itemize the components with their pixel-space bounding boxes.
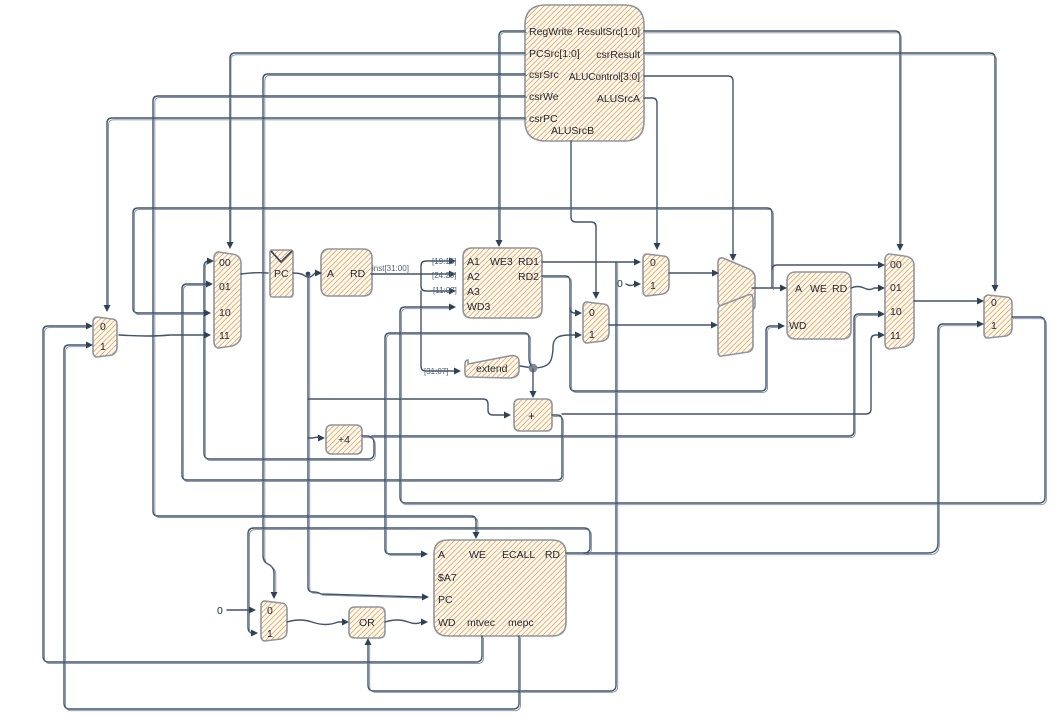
node junction PC xyxy=(306,272,311,277)
wire csr RD to csrResult mux 1 xyxy=(566,324,978,553)
mux M_TRAP (csrPC select, left) xyxy=(93,317,117,357)
svg-text:00: 00 xyxy=(219,257,231,269)
svg-text:0: 0 xyxy=(991,297,997,309)
wire SrcB mux to ALU xyxy=(609,324,712,326)
wire ImmExt to branch adder xyxy=(532,369,534,392)
wire PC to instruction memory xyxy=(293,273,316,277)
svg-text:RD: RD xyxy=(545,549,561,561)
svg-text:RD2: RD2 xyxy=(518,271,539,283)
wire csrResult xyxy=(644,53,995,286)
wire ALUControl[3:0] xyxy=(644,76,733,255)
wire csr RD loop to csrSrc mux 1 xyxy=(248,528,590,633)
wire PCTarget to result mux 11 xyxy=(562,335,879,414)
svg-text:0: 0 xyxy=(650,257,656,269)
mux M_PCSRC (4:1 next-PC mux) xyxy=(214,252,241,348)
wire RD1 branch to OR gate xyxy=(368,262,616,691)
svg-text:0: 0 xyxy=(267,605,273,617)
wire ALUSrcA xyxy=(644,98,657,244)
wire inst[31:00] bus xyxy=(371,273,450,275)
svg-text:WD: WD xyxy=(438,617,456,629)
svg-text:ALUControl[3:0]: ALUControl[3:0] xyxy=(569,72,640,83)
svg-text:10: 10 xyxy=(890,306,902,318)
wire +4 loop to PCSrc mux 00 xyxy=(204,261,374,459)
gate U_OR xyxy=(349,607,385,638)
wire PCSrc mux to PC xyxy=(241,273,268,274)
svg-text:ECALL: ECALL xyxy=(502,549,535,561)
sign-extend unit U_EXT xyxy=(465,356,519,378)
wire RegWrite xyxy=(499,31,525,241)
svg-text:11: 11 xyxy=(219,330,230,342)
svg-text:[19:15]: [19:15] xyxy=(432,257,456,266)
wire ResultSrc[1:0] xyxy=(644,31,900,245)
wire PC to branch adder xyxy=(308,399,505,415)
register PC xyxy=(270,250,293,297)
svg-text:01: 01 xyxy=(219,281,231,293)
instruction memory U_IMEM xyxy=(321,249,372,296)
svg-text:[11:07]: [11:07] xyxy=(433,286,457,295)
svg-text:csrWe: csrWe xyxy=(529,91,559,103)
svg-text:WE: WE xyxy=(469,549,486,561)
mux M_RESULT (ResultSrc 4:1) xyxy=(885,254,914,349)
mux M_CSRRES (csrResult) xyxy=(984,295,1012,338)
wire mtvec to trap mux 0 xyxy=(43,326,482,662)
wire mepc to trap mux 1 xyxy=(64,345,519,709)
svg-text:csrSrc: csrSrc xyxy=(529,69,559,81)
svg-text:00: 00 xyxy=(890,259,902,271)
wire csrWe xyxy=(153,96,525,533)
svg-text:RD1: RD1 xyxy=(518,256,539,268)
wire trap mux to PCSrc mux 11 xyxy=(119,335,205,336)
wire csrSrc xyxy=(263,74,525,593)
svg-text:1: 1 xyxy=(100,341,106,353)
wire RD2 tap to SrcB mux 0 xyxy=(570,308,576,313)
svg-text:01: 01 xyxy=(890,282,902,294)
svg-text:WE3: WE3 xyxy=(490,256,513,268)
wire RD1 to SrcA mux 0 xyxy=(542,261,635,263)
svg-text:[24:20]: [24:20] xyxy=(432,271,456,280)
svg-text:WD: WD xyxy=(789,320,807,332)
wire branch adder out / PCTarget xyxy=(182,284,562,480)
svg-text:extend: extend xyxy=(476,363,508,375)
mux M_SRCB (ALUSrcB) xyxy=(583,302,609,343)
svg-text:1: 1 xyxy=(650,280,656,292)
svg-text:inst[31:00]: inst[31:00] xyxy=(372,264,409,273)
svg-text:WE: WE xyxy=(810,283,827,295)
wire ALUSrcB xyxy=(571,141,596,293)
control unit U_CTRL xyxy=(525,5,644,141)
svg-text:A: A xyxy=(438,549,445,561)
svg-text:PC: PC xyxy=(438,594,453,606)
svg-text:OR: OR xyxy=(359,617,375,629)
svg-text:csrPC: csrPC xyxy=(529,113,558,125)
svg-text:PC: PC xyxy=(274,268,289,280)
svg-text:1: 1 xyxy=(267,628,273,640)
register file U_RF xyxy=(463,248,542,318)
CSR unit U_CSR xyxy=(434,540,566,636)
wire inst[11:07] to A3 xyxy=(421,274,450,291)
wire PC to +4 xyxy=(308,437,319,438)
svg-text:1: 1 xyxy=(991,320,997,332)
svg-text:+4: +4 xyxy=(338,434,350,446)
wire inst[31:07] to extend xyxy=(421,291,455,371)
svg-text:A1: A1 xyxy=(467,256,480,268)
svg-text:$A7: $A7 xyxy=(438,572,457,584)
svg-text:PCSrc[1:0]: PCSrc[1:0] xyxy=(529,48,580,60)
wire ImmExt to SrcB mux 1 xyxy=(520,335,576,368)
svg-text:1: 1 xyxy=(589,329,595,341)
svg-text:[31:07]: [31:07] xyxy=(424,367,448,376)
svg-text:+: + xyxy=(528,409,535,423)
svg-text:0: 0 xyxy=(617,278,623,290)
svg-text:0: 0 xyxy=(217,605,223,617)
node junction ImmExt xyxy=(529,364,538,373)
svg-text:RD: RD xyxy=(350,268,366,280)
wire OR to CSR WD xyxy=(385,620,422,624)
svg-text:mtvec: mtvec xyxy=(467,617,495,629)
svg-text:ALUSrcB: ALUSrcB xyxy=(551,125,594,137)
wire PCPlus4 to result mux 10 xyxy=(372,314,879,436)
svg-text:11: 11 xyxy=(890,330,901,342)
wire csrSrc mux to OR xyxy=(287,620,343,625)
wire SrcA mux to ALU xyxy=(669,272,713,274)
wire PC branch down xyxy=(308,275,423,597)
svg-text:ResultSrc[1:0]: ResultSrc[1:0] xyxy=(577,27,640,38)
ALU U_ALU (two overlapped quads) xyxy=(718,258,755,356)
svg-text:A: A xyxy=(795,283,802,295)
svg-text:A: A xyxy=(327,268,334,280)
wire csrPC xyxy=(107,118,525,306)
svg-text:A3: A3 xyxy=(467,286,480,298)
svg-text:ALUSrcA: ALUSrcA xyxy=(597,93,640,105)
wire Result to WD3 xyxy=(400,307,1045,503)
svg-text:csrResult: csrResult xyxy=(596,49,640,61)
adder U_PLUS4 (+4) xyxy=(326,425,362,454)
svg-text:A2: A2 xyxy=(467,271,480,283)
wire ALUResult to result mux 00 xyxy=(772,265,879,270)
wire ALUResult up to PCSrc mux 10 xyxy=(133,208,772,313)
wire RD2 xyxy=(542,276,779,391)
wire data memory RD to result mux 01 xyxy=(851,287,879,290)
wire PCSrc[1:0] xyxy=(230,53,525,243)
mux M_SRCA (ALUSrcA) xyxy=(643,254,669,296)
svg-text:mepc: mepc xyxy=(508,617,534,629)
svg-text:WD3: WD3 xyxy=(467,301,490,313)
wire inst[19:15] to A1 xyxy=(421,261,450,274)
wire result mux to csrResult mux 0 xyxy=(914,300,978,302)
wire ALUResult to data memory A xyxy=(752,287,781,289)
mux M_CSRSRC (bottom 0/1) xyxy=(261,601,287,641)
adder U_PCADD (+) xyxy=(514,399,552,431)
svg-text:0: 0 xyxy=(100,321,106,333)
svg-text:RegWrite: RegWrite xyxy=(529,26,573,38)
svg-text:10: 10 xyxy=(219,307,231,319)
data memory U_DMEM xyxy=(787,272,851,339)
svg-text:RD: RD xyxy=(832,283,848,295)
svg-text:0: 0 xyxy=(589,307,595,319)
wire ImmExt to CSR A xyxy=(385,333,531,554)
